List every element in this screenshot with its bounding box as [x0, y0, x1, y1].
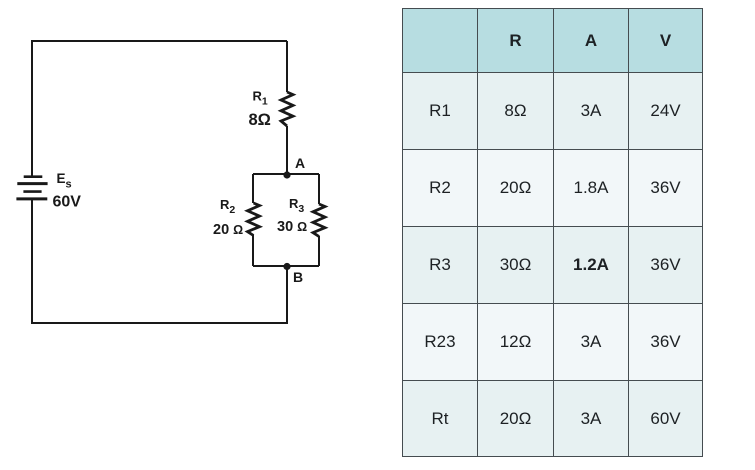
wire left upper: [31, 40, 33, 176]
svg-text:R2: R2: [220, 197, 235, 216]
resistor R2: [248, 203, 260, 236]
node B: [283, 263, 290, 270]
wire right branch lower: [318, 236, 320, 266]
resistor R3: [313, 204, 325, 237]
wire right upper: [286, 41, 288, 92]
svg-text:30 Ω: 30 Ω: [277, 219, 307, 235]
wire parallel box bottom: [253, 265, 319, 267]
svg-text:60V: 60V: [53, 194, 82, 211]
wire parallel box top: [253, 173, 319, 175]
wire R1 to node A: [286, 126, 288, 175]
svg-text:20 Ω: 20 Ω: [213, 222, 243, 238]
wire right branch upper: [318, 174, 320, 204]
svg-text:B: B: [293, 269, 303, 285]
battery Es: [16, 177, 47, 199]
wire bottom: [31, 322, 288, 324]
wire left lower: [31, 199, 33, 323]
svg-text:8Ω: 8Ω: [249, 111, 271, 129]
resistor R1: [281, 92, 293, 126]
circuit schematic: [0, 0, 400, 470]
wire left branch lower: [252, 235, 254, 266]
svg-text:A: A: [295, 155, 305, 171]
wire top: [32, 40, 287, 42]
svg-text:R3: R3: [289, 196, 304, 215]
svg-text:R1: R1: [253, 89, 268, 108]
wire left branch upper: [252, 174, 254, 203]
node A: [283, 171, 290, 178]
wire node B down: [286, 266, 288, 323]
results table: [402, 8, 703, 457]
svg-text:Es: Es: [57, 171, 72, 191]
